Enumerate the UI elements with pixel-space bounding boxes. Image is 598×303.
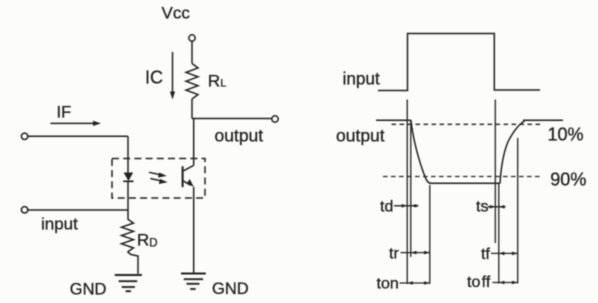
svg-text:10%: 10% — [548, 125, 584, 145]
svg-text:IF: IF — [57, 104, 72, 122]
svg-text:ts: ts — [476, 199, 488, 216]
svg-text:R: R — [137, 231, 149, 250]
svg-text:output: output — [336, 126, 385, 146]
svg-text:D: D — [149, 238, 157, 250]
svg-text:R: R — [208, 71, 220, 90]
svg-text:input: input — [343, 69, 380, 89]
svg-text:ton: ton — [377, 276, 399, 293]
svg-text:input: input — [41, 215, 78, 234]
svg-text:output: output — [215, 126, 264, 146]
svg-text:to ff: to ff — [467, 274, 491, 291]
svg-text:GND: GND — [70, 281, 107, 299]
svg-text:L: L — [220, 78, 226, 90]
svg-text:td: td — [380, 199, 393, 216]
svg-text:tf: tf — [481, 246, 490, 263]
svg-text:90%: 90% — [550, 170, 586, 190]
svg-text:GND: GND — [212, 280, 249, 298]
svg-text:Vcc: Vcc — [162, 4, 191, 23]
svg-text:tr: tr — [389, 246, 399, 263]
svg-text:IC: IC — [145, 68, 163, 88]
